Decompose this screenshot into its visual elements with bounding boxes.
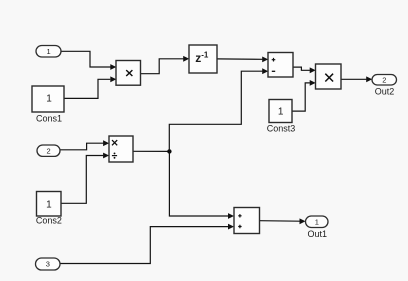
wire junction to Sum1 minus input — [169, 68, 268, 151]
wire Product2 to Out2 — [341, 76, 372, 82]
wire Product1 to Unit Delay — [141, 56, 190, 74]
svg-text:1: 1 — [46, 93, 52, 104]
sum block Sum1 — [268, 53, 293, 78]
constant Cons1 — [32, 86, 64, 112]
divide block — [109, 136, 133, 162]
wire Unit Delay to Sum1 — [217, 57, 268, 63]
wire Divide output to junction — [133, 150, 169, 152]
wire Cons1 to Product1 — [64, 76, 116, 98]
wire Sum2 to Out1 — [260, 218, 306, 224]
product block Product2 — [316, 64, 342, 89]
svg-text:Cons2: Cons2 — [36, 215, 62, 225]
wire junction to Sum2 — [169, 151, 234, 219]
unit delay block — [189, 45, 217, 73]
svg-text:Out1: Out1 — [307, 229, 327, 239]
svg-text:Cons1: Cons1 — [36, 113, 62, 123]
output port Out2 — [372, 75, 397, 86]
wire In2 to Divide — [60, 140, 109, 150]
wire Const3 to Product2 — [292, 80, 316, 111]
input port 1 — [36, 46, 61, 58]
svg-text:3: 3 — [46, 260, 50, 269]
input port 2 — [37, 145, 60, 156]
wire Sum1 to Product2 — [293, 67, 316, 73]
svg-text:Const3: Const3 — [267, 123, 296, 133]
constant Cons2 — [37, 192, 62, 217]
input port 3 — [36, 258, 61, 270]
svg-text:1: 1 — [315, 218, 319, 227]
product block Product1 — [116, 61, 141, 86]
junction node — [167, 149, 171, 153]
wire In1 to Product1 — [61, 51, 116, 70]
svg-text:2: 2 — [382, 76, 386, 85]
svg-text:1: 1 — [47, 47, 51, 56]
svg-text:2: 2 — [47, 147, 51, 156]
wire In3 to Sum2 — [60, 224, 234, 264]
sum block Sum2 — [234, 208, 260, 234]
svg-text:Out2: Out2 — [375, 86, 395, 96]
constant Const3 — [269, 100, 292, 123]
svg-text:1: 1 — [278, 107, 284, 118]
output port Out1 — [306, 216, 329, 228]
svg-text:1: 1 — [46, 199, 52, 210]
wire Cons2 to Divide — [61, 153, 109, 204]
